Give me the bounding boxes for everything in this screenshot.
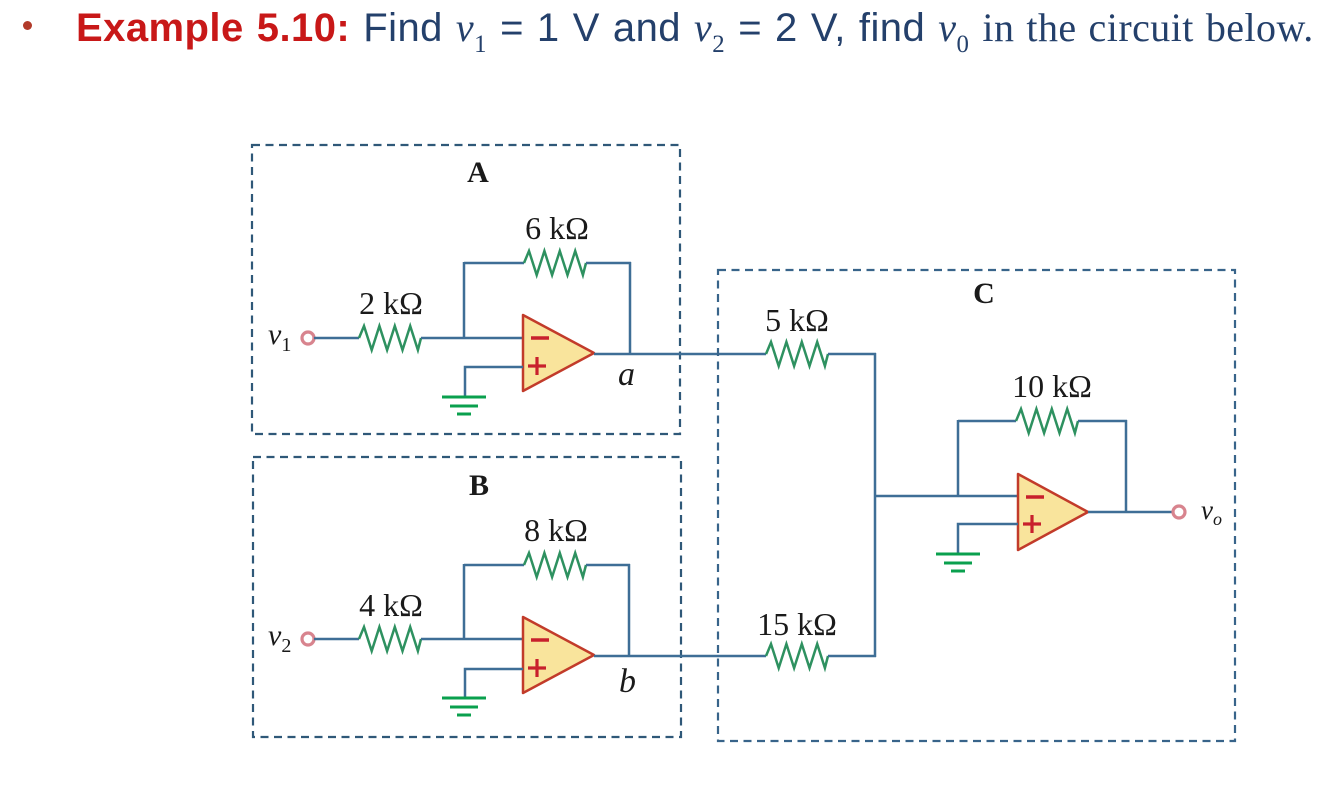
resistor 4 kΩ bbox=[359, 627, 421, 651]
label 5 kΩ bbox=[765, 302, 829, 338]
node a label bbox=[618, 356, 635, 393]
svg-text:vo: vo bbox=[1201, 495, 1222, 529]
svg-text:15 kΩ: 15 kΩ bbox=[757, 606, 837, 642]
svg-text:2 kΩ: 2 kΩ bbox=[359, 285, 423, 321]
wire 15k resistor to bus bbox=[828, 655, 876, 658]
svg-text:8 kΩ: 8 kΩ bbox=[524, 512, 588, 548]
ground (A) bbox=[442, 397, 486, 414]
dashed box A bbox=[252, 145, 680, 434]
node vo label bbox=[1201, 495, 1222, 529]
wire v2 terminal to 4k resistor bbox=[314, 638, 359, 641]
wire op-amp C plus input to ground bbox=[958, 524, 1018, 554]
label 10 kΩ bbox=[1012, 368, 1092, 404]
dashed box C bbox=[718, 270, 1235, 741]
wire feedback down to output (A) bbox=[629, 262, 632, 354]
svg-text:b: b bbox=[619, 663, 636, 700]
wire junction up to feedback (A) bbox=[463, 262, 466, 338]
ground (C) bbox=[936, 554, 980, 571]
terminal v1 bbox=[302, 332, 314, 344]
wire junction up to feedback (B) bbox=[463, 564, 466, 639]
resistor 8 kΩ feedback bbox=[524, 553, 586, 577]
bullet bbox=[23, 21, 32, 30]
label C bbox=[973, 277, 995, 310]
op-amp U3 bbox=[1018, 474, 1088, 550]
svg-text:10 kΩ: 10 kΩ bbox=[1012, 368, 1092, 404]
svg-text:a: a bbox=[618, 356, 635, 393]
svg-text:A: A bbox=[467, 156, 489, 189]
label 8 kΩ bbox=[524, 512, 588, 548]
ground (B) bbox=[442, 698, 486, 715]
wire feedback top left (C) bbox=[958, 420, 1016, 423]
wire op-amp B output to node b and 15k resistor bbox=[594, 655, 766, 658]
resistor 15 kΩ bbox=[766, 644, 828, 668]
wire v1 terminal to 2k resistor bbox=[314, 337, 359, 340]
dashed box B bbox=[253, 457, 681, 737]
terminal vo bbox=[1173, 506, 1185, 518]
svg-text:v2: v2 bbox=[268, 619, 291, 657]
op-amp U1 bbox=[523, 315, 594, 391]
wire feedback down to output (C) bbox=[1125, 420, 1128, 513]
svg-text:4 kΩ: 4 kΩ bbox=[359, 587, 423, 623]
label 6 kΩ bbox=[525, 210, 589, 246]
resistor 10 kΩ feedback bbox=[1016, 409, 1078, 433]
wire 4k resistor to op-amp B inverting input bbox=[421, 638, 523, 641]
label 2 kΩ bbox=[359, 285, 423, 321]
svg-text:C: C bbox=[973, 277, 995, 310]
svg-text:v1: v1 bbox=[268, 318, 291, 356]
resistor 5 kΩ bbox=[766, 342, 828, 366]
wire feedback down to output (B) bbox=[628, 564, 631, 656]
label 15 kΩ bbox=[757, 606, 837, 642]
wire feedback stem up (C) bbox=[957, 420, 960, 496]
wire vertical bus bbox=[874, 353, 877, 657]
wire 2k resistor to op-amp A inverting input bbox=[421, 337, 523, 340]
wire feedback top right (C) bbox=[1078, 420, 1127, 423]
svg-text:6 kΩ: 6 kΩ bbox=[525, 210, 589, 246]
wire feedback top left (A) bbox=[464, 262, 524, 265]
label B bbox=[469, 469, 489, 502]
op-amp U2 bbox=[523, 617, 594, 693]
wire op-amp A output to node a and 5k resistor bbox=[594, 353, 766, 356]
wire op-amp C output to vo terminal bbox=[1088, 511, 1173, 514]
node v1 label bbox=[268, 318, 291, 356]
svg-text:5 kΩ: 5 kΩ bbox=[765, 302, 829, 338]
wire op-amp B plus input to ground bbox=[465, 669, 523, 698]
wire feedback top right (A) bbox=[586, 262, 631, 265]
title text bbox=[76, 8, 1314, 56]
wire feedback top right (B) bbox=[586, 564, 630, 567]
wire op-amp A plus input to ground bbox=[465, 367, 523, 397]
svg-text:B: B bbox=[469, 469, 489, 502]
wire feedback top left (B) bbox=[464, 564, 524, 567]
resistor 2 kΩ bbox=[359, 326, 421, 350]
label 4 kΩ bbox=[359, 587, 423, 623]
wire 5k resistor to bus bbox=[828, 353, 876, 356]
terminal v2 bbox=[302, 633, 314, 645]
node b label bbox=[619, 663, 636, 700]
wire bus to op-amp C inverting input bbox=[875, 495, 1018, 498]
label A bbox=[467, 156, 489, 189]
resistor 6 kΩ feedback bbox=[524, 251, 586, 275]
node v2 label bbox=[268, 619, 291, 657]
